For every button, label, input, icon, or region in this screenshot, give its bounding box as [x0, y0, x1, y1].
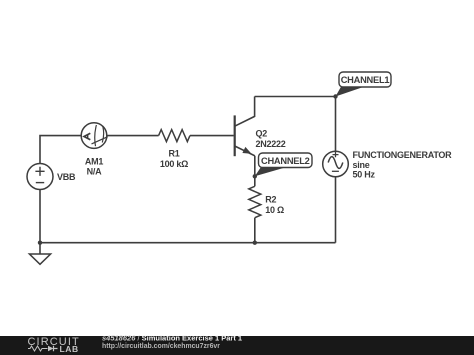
node CHANNEL1 callout	[336, 72, 392, 97]
ammeter AM1	[81, 123, 108, 149]
node CHANNEL2 callout	[255, 153, 312, 176]
voltage source VBB	[27, 164, 53, 190]
footer CircuitLab logo	[28, 336, 80, 354]
footer bar	[0, 336, 474, 355]
svg-text:100 kΩ: 100 kΩ	[160, 159, 188, 169]
wire: bottom rail	[40, 242, 336, 244]
wire: emitter down to R2	[254, 156, 256, 187]
svg-text:R2: R2	[265, 195, 276, 205]
node: CHANNEL2 junction dot	[253, 174, 257, 178]
svg-text:http://circuitlab.com/ckehmcu7: http://circuitlab.com/ckehmcu7zr6vr	[102, 343, 220, 350]
svg-text:FUNCTIONGENERATOR: FUNCTIONGENERATOR	[353, 150, 453, 160]
svg-text:sine: sine	[353, 160, 370, 170]
wire: top rail from collector	[255, 96, 336, 98]
svg-text:R1: R1	[168, 149, 179, 159]
wire: ammeter to R1	[107, 135, 159, 137]
wire: R1 to base	[190, 135, 234, 137]
svg-text:CHANNEL1: CHANNEL1	[341, 75, 390, 85]
node: junction dot bottom-left	[38, 241, 42, 245]
svg-text:CHANNEL2: CHANNEL2	[261, 156, 310, 166]
svg-text:N/A: N/A	[87, 167, 103, 177]
node: CHANNEL1 junction dot	[333, 94, 337, 98]
svg-text:2N2222: 2N2222	[256, 139, 286, 149]
wire: right vertical bottom	[335, 177, 337, 243]
function generator FUNCTIONGENERATOR	[323, 151, 349, 177]
svg-text:10 Ω: 10 Ω	[265, 205, 284, 215]
wire: R2 to bottom rail	[254, 218, 256, 243]
svg-text:s4518626 / Simulation Exercise: s4518626 / Simulation Exercise 1 Part 1	[102, 334, 242, 343]
node: junction dot R2 bottom	[253, 241, 257, 245]
svg-text:Q2: Q2	[256, 129, 268, 139]
svg-text:VBB: VBB	[57, 172, 76, 182]
resistor R1	[159, 130, 190, 142]
svg-text:LAB: LAB	[60, 344, 79, 354]
svg-text:AM1: AM1	[85, 157, 103, 167]
wire: VBB bottom to bottom rail	[39, 190, 41, 243]
ground	[29, 243, 50, 265]
wire: VBB top to main rail corner and to ammeter	[40, 136, 81, 164]
svg-text:50 Hz: 50 Hz	[353, 170, 376, 180]
wire: right vertical top	[335, 97, 337, 152]
transistor Q2	[235, 97, 255, 157]
resistor R2	[249, 186, 261, 217]
